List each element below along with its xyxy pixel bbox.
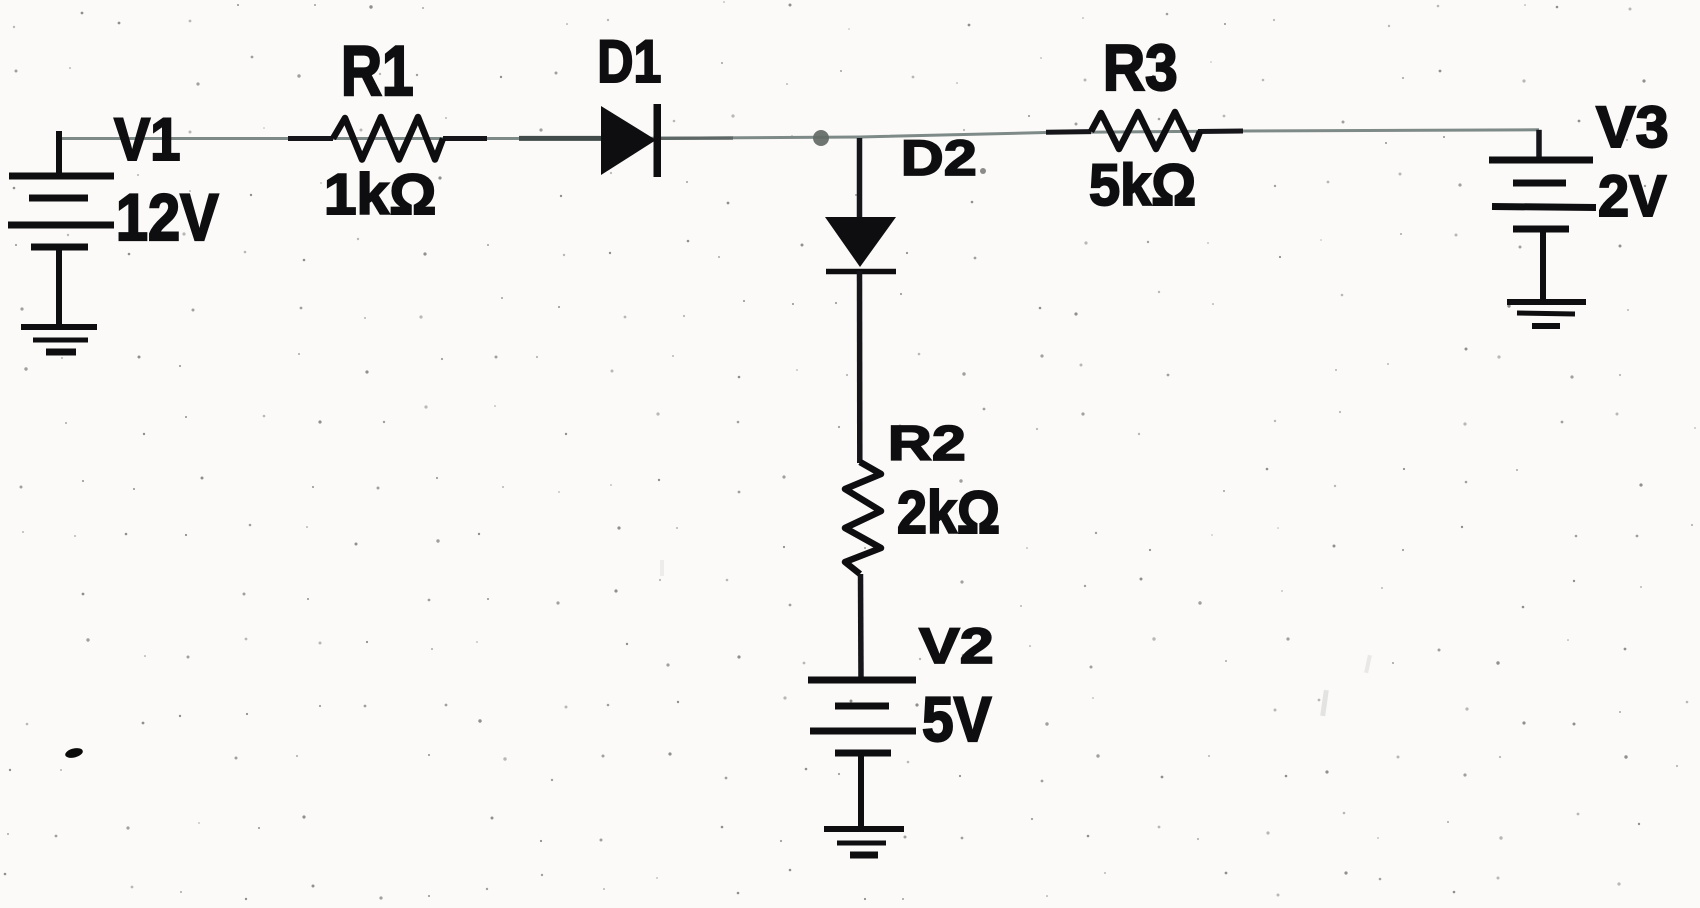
label V1 — [114, 106, 180, 173]
label V3 — [1596, 93, 1669, 160]
label D1 — [597, 28, 661, 95]
V3 plate long — [1492, 207, 1596, 208]
ground of V3 — [1507, 302, 1586, 326]
svg-text:V1: V1 — [114, 106, 180, 173]
resistor R1 — [333, 117, 443, 160]
svg-text:1kΩ: 1kΩ — [324, 163, 436, 227]
svg-text:R2: R2 — [888, 416, 966, 471]
label R1 — [341, 31, 414, 110]
ink blob speck bottom-left — [64, 746, 84, 759]
svg-text:2kΩ: 2kΩ — [897, 479, 1000, 546]
D2 label period speck — [980, 168, 986, 174]
V2 plate long top — [808, 677, 916, 684]
diode D2 — [825, 217, 896, 272]
wire V2 to ground — [858, 753, 864, 829]
label 5kOhm — [1089, 153, 1196, 219]
wire black stub right of R3 — [1198, 129, 1243, 135]
V1 plate long top — [9, 173, 114, 180]
svg-text:D1: D1 — [597, 28, 661, 95]
label V2 — [919, 617, 994, 674]
svg-text:5V: 5V — [922, 684, 992, 754]
wire stub from top wire down to V1 plus plate — [56, 131, 62, 174]
V2 plate short bottom — [835, 750, 891, 757]
V2 plate short — [835, 703, 889, 710]
svg-text:D2: D2 — [901, 129, 977, 186]
wire V3 corner stub — [1536, 130, 1542, 160]
wire black stub left of R3 — [1046, 129, 1091, 135]
battery V2 — [808, 680, 916, 829]
label D2 — [901, 129, 977, 186]
V3 plate short — [1513, 180, 1566, 187]
wire dark segment before D1 — [519, 136, 602, 141]
wire D2 vertical from node — [857, 138, 863, 218]
label 2V — [1598, 164, 1666, 230]
svg-text:2V: 2V — [1598, 164, 1666, 230]
svg-text:V3: V3 — [1596, 93, 1669, 160]
svg-text:12V: 12V — [116, 181, 219, 254]
resistor R2 vertical — [845, 462, 881, 574]
diode D1 — [601, 104, 661, 177]
battery V1 — [8, 131, 114, 327]
wire V1 to ground — [56, 247, 62, 327]
label R2 — [888, 416, 966, 471]
label 5V — [922, 684, 992, 754]
ground of V1 — [21, 327, 97, 352]
wire black stub left of R1 — [288, 136, 333, 141]
wire V3 to ground — [1540, 229, 1546, 302]
node A junction dot — [813, 130, 829, 146]
svg-text:R3: R3 — [1103, 32, 1178, 104]
label 12V — [116, 181, 219, 254]
label 2kOhm — [897, 479, 1000, 546]
V1 plate short bottom — [31, 244, 88, 251]
V2 plate long — [810, 728, 916, 735]
label 1kOhm — [324, 163, 436, 227]
svg-text:5kΩ: 5kΩ — [1089, 153, 1196, 219]
V1 plate long — [8, 222, 114, 229]
wire D2 to R2 — [857, 271, 863, 463]
wire R2 to V2 — [858, 574, 864, 678]
svg-text:R1: R1 — [341, 31, 414, 110]
label R3 — [1103, 32, 1178, 104]
V3 plate long top — [1489, 157, 1593, 164]
wire main horizontal — [56, 130, 1539, 139]
V1 plate short — [29, 195, 88, 202]
V3 plate short bottom — [1513, 226, 1569, 233]
svg-text:V2: V2 — [919, 617, 994, 674]
battery V3 — [1489, 160, 1596, 302]
ground of V2 — [824, 829, 904, 855]
wire black stub right of R1 — [443, 136, 487, 141]
resistor R3 — [1091, 112, 1200, 149]
wire grey segment after D1 — [660, 136, 733, 140]
